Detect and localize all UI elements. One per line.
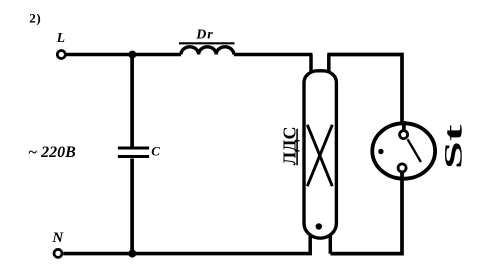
svg-text:2): 2) [29, 11, 41, 26]
svg-text:ЛДС: ЛДС [279, 127, 299, 166]
svg-text:~ 220В: ~ 220В [28, 144, 76, 161]
svg-text:L: L [56, 30, 65, 45]
svg-text:Dr: Dr [195, 27, 213, 42]
svg-text:C: C [151, 144, 160, 159]
svg-text:N: N [51, 230, 64, 246]
svg-text:St: St [439, 125, 467, 169]
